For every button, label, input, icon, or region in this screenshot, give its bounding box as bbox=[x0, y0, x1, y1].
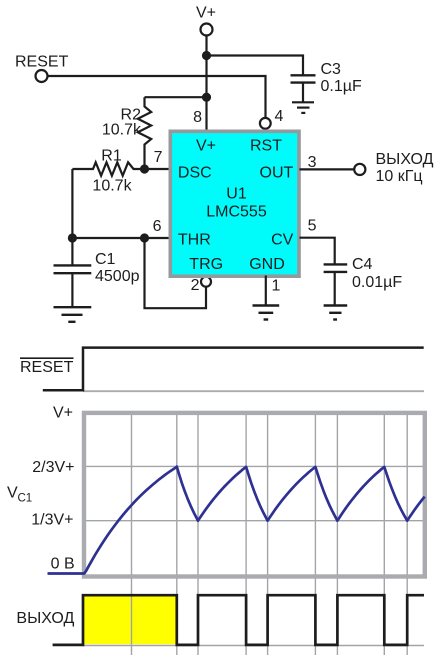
wire V+ terminal to junction bbox=[205, 36, 207, 56]
svg-text:V+: V+ bbox=[196, 5, 216, 22]
svg-text:ВЫХОД: ВЫХОД bbox=[16, 610, 74, 627]
ground pin 1 bbox=[253, 306, 280, 320]
wire pin 7 bbox=[145, 168, 170, 170]
ground C1 bbox=[54, 307, 92, 322]
junction TRG branch bbox=[140, 233, 149, 242]
svg-text:V: V bbox=[7, 485, 18, 502]
wire THR row pin 6 bbox=[72, 237, 169, 239]
svg-text:GND: GND bbox=[249, 256, 285, 273]
svg-text:DSC: DSC bbox=[178, 164, 212, 181]
ground C4 bbox=[324, 306, 348, 320]
wire RESET waveform gray baseline bbox=[83, 390, 424, 392]
wire R2 top bbox=[145, 96, 207, 98]
svg-text:10 кГц: 10 кГц bbox=[376, 168, 423, 185]
grid 1/3 level line bbox=[85, 520, 423, 522]
svg-text:8: 8 bbox=[193, 109, 202, 126]
output terminal bbox=[354, 164, 365, 175]
svg-text:1: 1 bbox=[272, 278, 281, 295]
output first pulse highlight bbox=[84, 596, 177, 644]
svg-text:CV: CV bbox=[271, 232, 294, 249]
wire V+ rail to C3 bbox=[207, 56, 304, 76]
svg-text:THR: THR bbox=[178, 232, 211, 249]
wire left branch down bbox=[71, 169, 73, 238]
wire RESET to pin 4 bbox=[48, 76, 266, 118]
junction V+ rail bbox=[202, 51, 211, 60]
svg-text:LMC555: LMC555 bbox=[206, 204, 267, 221]
svg-text:TRG: TRG bbox=[189, 256, 223, 273]
wire GND pin 1 bbox=[265, 276, 267, 305]
junction R2 top bbox=[202, 93, 211, 102]
svg-text:ВЫХОД: ВЫХОД bbox=[376, 151, 434, 168]
node RESET terminal bbox=[36, 70, 48, 82]
grid 2/3 level line bbox=[85, 465, 423, 467]
op-amp U1 IC body LMC555 bbox=[170, 131, 299, 276]
svg-text:V+: V+ bbox=[196, 138, 216, 155]
resistor R1 bbox=[72, 162, 144, 175]
svg-text:C3: C3 bbox=[321, 61, 342, 78]
svg-text:0.01µF: 0.01µF bbox=[352, 274, 402, 291]
graph border frame bbox=[84, 413, 425, 577]
capacitor C1 voltage waveform bbox=[48, 467, 425, 574]
wire C1 lead bbox=[71, 238, 73, 265]
svg-text:7: 7 bbox=[154, 149, 163, 166]
svg-text:3: 3 bbox=[308, 154, 317, 171]
svg-text:C1: C1 bbox=[95, 251, 116, 268]
svg-text:0.1µF: 0.1µF bbox=[321, 78, 362, 95]
svg-text:C1: C1 bbox=[18, 493, 33, 505]
svg-text:OUT: OUT bbox=[260, 164, 294, 181]
pin 4 open terminal bbox=[260, 118, 271, 129]
svg-text:4500p: 4500p bbox=[95, 268, 140, 285]
svg-text:10.7k: 10.7k bbox=[102, 122, 142, 139]
wire CV pin 5 to C4 bbox=[300, 238, 335, 264]
capacitor C4 bbox=[324, 264, 348, 304]
svg-text:RST: RST bbox=[250, 138, 282, 155]
svg-text:10.7k: 10.7k bbox=[92, 178, 132, 195]
resistor R2 bbox=[138, 97, 151, 169]
capacitor C1 bbox=[54, 265, 92, 306]
wire TRG pin 2 bbox=[145, 238, 207, 308]
svg-text:1/3V+: 1/3V+ bbox=[31, 512, 73, 529]
svg-text:5: 5 bbox=[308, 218, 317, 235]
pin 2 open terminal bbox=[201, 277, 211, 287]
wire RESET waveform trace bbox=[43, 348, 424, 391]
svg-text:6: 6 bbox=[153, 218, 162, 235]
svg-text:RESET: RESET bbox=[20, 359, 74, 376]
grid vertical lines bbox=[132, 414, 408, 655]
svg-text:2/3V+: 2/3V+ bbox=[32, 459, 74, 476]
svg-text:R1: R1 bbox=[101, 148, 122, 165]
wire OUT pin 3 bbox=[300, 168, 355, 170]
capacitor C3 bbox=[291, 75, 316, 101]
svg-text:2: 2 bbox=[191, 277, 200, 294]
wire V+ rail down to pin 8 bbox=[205, 56, 207, 132]
junction pin 7 bbox=[140, 164, 149, 173]
ground C3 bbox=[292, 102, 314, 113]
svg-text:4: 4 bbox=[275, 108, 284, 125]
node V+ terminal bbox=[201, 24, 213, 36]
svg-text:U1: U1 bbox=[226, 186, 247, 203]
svg-text:RESET: RESET bbox=[15, 54, 69, 71]
wire output waveform trace bbox=[53, 595, 424, 645]
svg-text:C4: C4 bbox=[352, 256, 373, 273]
svg-text:0 В: 0 В bbox=[51, 556, 75, 573]
wire output waveform gray baseline bbox=[82, 645, 424, 647]
svg-text:V+: V+ bbox=[53, 405, 73, 422]
junction C1 top bbox=[68, 233, 77, 242]
